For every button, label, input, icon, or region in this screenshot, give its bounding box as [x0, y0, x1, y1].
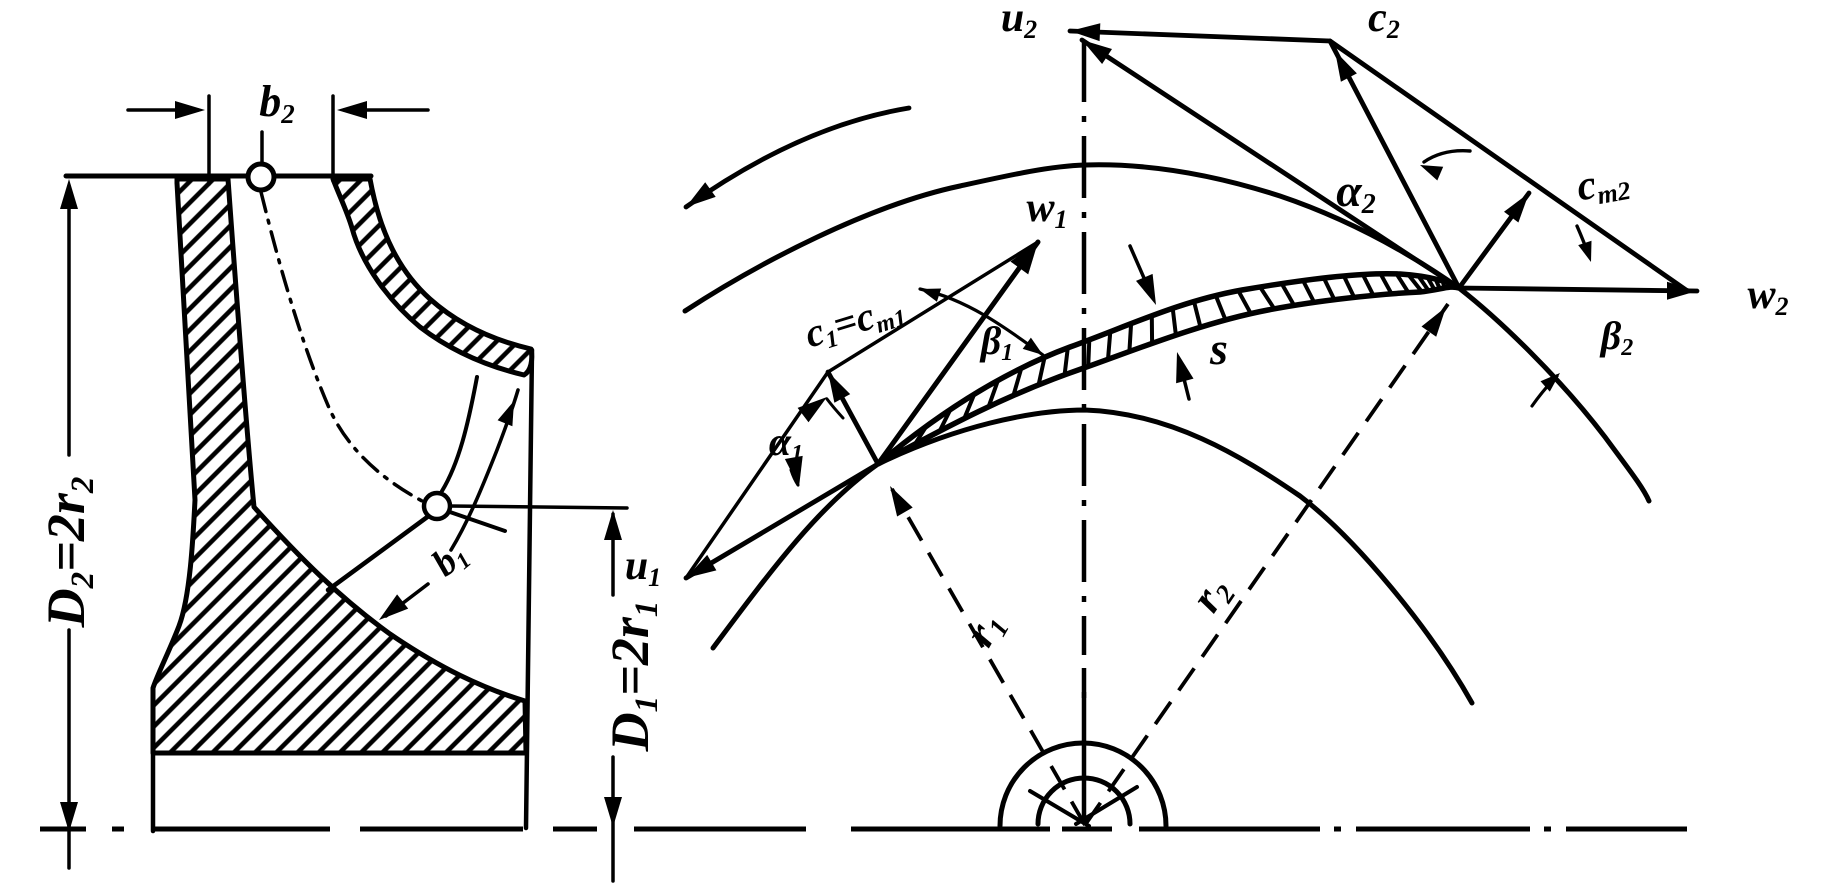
D1 dimension line	[604, 510, 622, 881]
impeller top edge line	[66, 174, 371, 179]
impeller blade profile (hatched crescent from inlet Q to outlet P)	[878, 274, 1459, 464]
parallelogram top side (from c2 tip to u2 tip)	[1070, 23, 1330, 41]
axis of rotation (horizontal dash-dot line)	[40, 827, 1687, 832]
b2 extension line right	[331, 96, 335, 181]
b1 arrow to hub surface	[379, 584, 428, 620]
hub cross line 1	[1030, 791, 1089, 826]
b2 extension line left	[207, 96, 211, 184]
centerline (vertical dash-dot axis of velocity diagram)	[1082, 40, 1087, 824]
parallelogram side (c1 tip to w1 tip)	[828, 242, 1038, 372]
vector c1 (absolute velocity at inlet, radial)	[828, 372, 878, 464]
hub bore left vertical line	[151, 753, 156, 831]
label s	[1209, 323, 1228, 374]
angle beta1 arc with arrowheads	[920, 289, 1043, 356]
radius r2 (dashed, from centre O to outlet P)	[1085, 304, 1448, 825]
label r1	[955, 603, 1015, 656]
label D1=2r1	[600, 601, 665, 753]
label u1	[625, 543, 661, 592]
impeller right edge vertical line	[526, 350, 532, 828]
label b2	[259, 77, 295, 129]
node circle at inlet width b1	[424, 493, 450, 519]
hub inner semicircle	[1038, 778, 1130, 824]
mean streamline (dash-dot curve)	[261, 192, 424, 502]
parallelogram side (u1 tip to c1 tip)	[686, 372, 828, 578]
label c2	[1368, 0, 1400, 44]
vector cm2 (meridional component of c2)	[1459, 193, 1529, 288]
vector u2 (peripheral velocity at outlet)	[1082, 40, 1459, 288]
angle beta2 arc arrow	[1532, 373, 1560, 406]
label beta2	[1599, 313, 1634, 361]
angle alpha1 arc arrows	[785, 397, 843, 487]
vector w2 (relative velocity at outlet)	[1459, 282, 1697, 300]
label r2	[1181, 567, 1241, 621]
label u2	[1001, 0, 1037, 44]
node circle at outlet width b2	[248, 164, 274, 190]
impeller back shroud and hub (hatched section)	[153, 179, 526, 753]
angle alpha2 arc arrow	[1420, 151, 1470, 181]
D2 dimension line	[60, 179, 78, 868]
label w2	[1747, 272, 1788, 321]
svg-text:D2=2r2: D2=2r2	[36, 477, 101, 629]
blade thickness s arrows	[1130, 246, 1194, 399]
vector u1 (peripheral velocity at inlet)	[686, 464, 878, 578]
radius r1 (dashed, from centre O to inlet Q)	[890, 486, 1085, 825]
label cm2	[1573, 156, 1633, 213]
blade leading edge line (node to hub surface)	[328, 515, 430, 590]
label D2=2r2	[36, 477, 101, 629]
extension line from inlet node to D1 dimension	[450, 506, 627, 508]
svg-text:D1=2r1: D1=2r1	[600, 601, 665, 753]
label c1=cm1	[799, 284, 910, 359]
hatch pattern def	[0, 0, 1, 1]
rotation direction arrow (curved)	[686, 108, 909, 207]
hub outer semicircle	[1000, 743, 1166, 826]
b1 dimension curved line with up arrow	[451, 390, 518, 550]
b2 dimension arrow right	[337, 101, 428, 119]
label alpha1	[769, 419, 803, 467]
svg-text:s: s	[1209, 323, 1228, 374]
inner circle arc (radius r1)	[713, 410, 1472, 703]
leader from b2 label to node	[260, 132, 264, 163]
impeller front shroud (hatched curved section)	[333, 179, 532, 375]
label beta1	[979, 318, 1014, 366]
b2 dimension arrow left	[128, 101, 205, 119]
parallelogram side (from c2 tip to w2 tip)	[1330, 41, 1686, 290]
spur line from inlet node	[447, 511, 505, 531]
vector w1 (relative velocity at inlet)	[878, 242, 1038, 464]
outer circle arc (radius r2)	[685, 165, 1649, 501]
label b1	[424, 533, 476, 586]
vector c2 (absolute velocity at outlet)	[1330, 41, 1459, 288]
angle arc arrow at cm2	[1577, 226, 1592, 262]
label alpha2	[1336, 165, 1375, 220]
label w1	[1026, 185, 1067, 234]
front shroud inner surface to inlet node	[442, 377, 477, 491]
hub cross line 2	[1076, 787, 1137, 824]
